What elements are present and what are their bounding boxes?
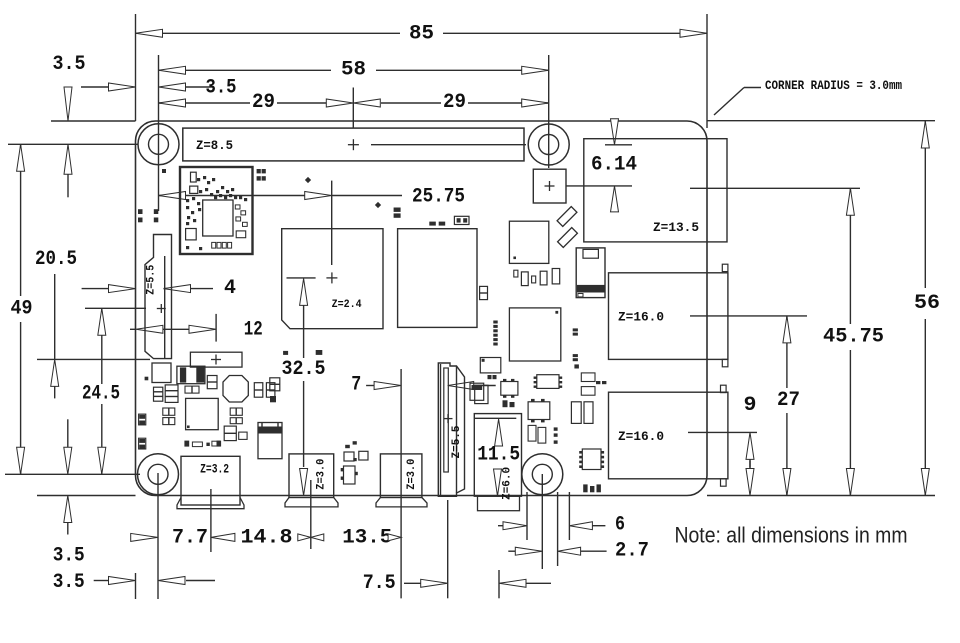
- component square center mark: [545, 181, 555, 191]
- microUSB flange: [177, 498, 244, 509]
- pad below gpio: [162, 169, 166, 173]
- dimension 3.5 top-left text: [53, 53, 86, 76]
- CSI center mark: [444, 414, 453, 423]
- square part below DSI: [152, 363, 171, 383]
- dimension 58 extension line right (hole column): [548, 55, 550, 168]
- dimension 7.7/14.8 left arrow at microUSB: [211, 533, 235, 541]
- svg-text:29: 29: [443, 91, 466, 114]
- USB connector 2 (Z=16.0): [609, 392, 728, 479]
- PMIC chip U6: [186, 398, 219, 429]
- svg-text:6.14: 6.14: [591, 154, 637, 177]
- open square a: [344, 452, 354, 461]
- chips right of audio: [571, 402, 593, 424]
- svg-text:3.5: 3.5: [53, 545, 85, 568]
- svg-text:Note: all dimensions in mm: Note: all dimensions in mm: [675, 523, 908, 548]
- bottom edge extension line to right: [707, 495, 935, 497]
- USB2 label Z=16.0: [618, 430, 664, 444]
- edge part 2: [139, 438, 146, 449]
- dimension 20.5 text: [35, 248, 77, 271]
- dimension 58 extension line left (hole column): [158, 55, 160, 211]
- dimension 12 line: [130, 328, 190, 330]
- tiny bits row above SoC: [283, 350, 322, 355]
- dimension 29 left arrow: [159, 99, 186, 107]
- svg-text:29: 29: [252, 91, 275, 114]
- dimension 6.14 text: [591, 154, 637, 177]
- dimension 49 down arrow: [17, 447, 25, 474]
- dimension 25.75 right arrow: [305, 192, 332, 200]
- USB1 label Z=16.0: [618, 310, 664, 324]
- svg-text:14.8: 14.8: [241, 526, 293, 549]
- dimension 12 right arrow: [189, 325, 216, 333]
- dimension 11.5 top tick (audio center row): [475, 417, 516, 419]
- dimension 6.14 bottom arrow: [611, 186, 619, 212]
- dimension 49 up arrow: [17, 144, 25, 171]
- audio label Z=6.0 rotated: [502, 467, 514, 500]
- USB connector 1 (Z=16.0): [609, 273, 728, 360]
- electrolytic cap C9: [258, 423, 282, 459]
- dimension 3.5 bottom-left vertical up arrow: [64, 496, 72, 535]
- ext line 2.7-right: [557, 492, 559, 566]
- dimension 13.5 text: [342, 526, 392, 549]
- dots col near audio: [554, 427, 558, 443]
- dimension 29 mid tick line: [352, 88, 354, 129]
- svg-text:24.5: 24.5: [82, 382, 120, 405]
- LAN chip U5: [509, 308, 560, 361]
- dimension 25.75 line: [159, 195, 403, 197]
- dimension 7.7 left arrow: [131, 533, 158, 541]
- dimension 3.5 bottom horizontal left arrow: [158, 577, 185, 585]
- vert rect part: [224, 426, 236, 441]
- svg-text:3.5: 3.5: [53, 53, 86, 76]
- mid chip U4: [509, 221, 548, 263]
- dimension 4 line: [82, 288, 213, 290]
- dimension 4 left arrow at DSI: [164, 285, 191, 293]
- pad dot 2: [375, 202, 381, 208]
- component square center row line: [566, 185, 605, 187]
- audio jack lip: [478, 496, 520, 511]
- svg-text:25.75: 25.75: [412, 186, 465, 209]
- tiny row above microUSB: [184, 441, 220, 447]
- dimension 3.5 horizontal left arrow at hole col: [159, 83, 186, 91]
- dimension 24.5 up arrow: [98, 308, 106, 335]
- dimension 9 text: [744, 394, 757, 417]
- SOT23 Q1: [501, 379, 518, 398]
- GPIO header label Z=8.5: [196, 139, 233, 153]
- corner radius note text: [765, 78, 902, 93]
- svg-text:Z=5.5: Z=5.5: [146, 264, 158, 294]
- svg-text:3.5: 3.5: [53, 571, 85, 594]
- CSI slot: [444, 368, 449, 472]
- dimension 56 text: [914, 292, 940, 315]
- ethernet label Z=13.5: [653, 221, 699, 235]
- pads pair right of CSI: [488, 375, 497, 379]
- CSI inner line: [456, 366, 458, 493]
- bottom-right hole column line: [541, 474, 543, 569]
- component right of RAM: [480, 286, 488, 299]
- dimension 29 line left half: [159, 102, 327, 104]
- tiny parts row below: [503, 400, 515, 407]
- USB2 corner tabs: [721, 385, 727, 486]
- dimension 14.8/13.5 butterfly at HDMI1: [298, 534, 324, 541]
- edge part 1: [139, 414, 146, 425]
- small IC with pins: [534, 375, 563, 389]
- svg-text:Z=6.0: Z=6.0: [502, 467, 514, 500]
- dimension 27 line: [786, 316, 788, 496]
- dimension 85 extension line left (board left edge): [135, 14, 137, 121]
- dimension 3.5 top-left down arrow: [64, 87, 72, 121]
- dimension 7.5 line left: [404, 582, 421, 584]
- caps right of PMIC: [230, 408, 242, 424]
- dimension 25.75 left arrow: [159, 192, 186, 200]
- dimension 85 line: [136, 32, 708, 34]
- microUSB label Z=3.2: [200, 463, 229, 477]
- RAM U3: [398, 229, 477, 328]
- svg-text:Z=3.0: Z=3.0: [406, 459, 418, 490]
- dimension 45.75 text: [823, 326, 884, 349]
- dark dot: [270, 396, 276, 402]
- dimension 6.14 top tick: [605, 144, 632, 146]
- pad dot 1: [305, 177, 311, 183]
- flat component center mark: [211, 355, 221, 365]
- svg-text:49: 49: [11, 298, 33, 321]
- svg-text:56: 56: [914, 292, 940, 315]
- HDMI2 center column line low: [400, 452, 402, 598]
- HDMI connector 2 (Z=3.0): [380, 454, 422, 498]
- parts right of CSI top: [475, 385, 488, 403]
- dimension 9 up arrow: [746, 432, 754, 467]
- dimension 3.5 horizontal text: [206, 77, 237, 100]
- dimension 6 right arrow: [569, 522, 605, 530]
- dimension 27 down arrow: [783, 469, 791, 496]
- cap C2: [154, 387, 163, 401]
- bottom hole row extension line to left: [5, 473, 140, 475]
- dimension 56 line: [924, 121, 926, 496]
- dimension 32.5 up arrow: [300, 278, 308, 305]
- dimension 24.5 line: [101, 308, 103, 474]
- dimension 32.5 down arrow: [300, 469, 308, 496]
- svg-text:4: 4: [224, 277, 236, 300]
- small rect r1: [185, 386, 199, 393]
- pads near left edge: [138, 209, 158, 222]
- cap col 1: [254, 383, 262, 398]
- caps right pair: [581, 373, 595, 395]
- dimension 45.75 down arrow: [846, 469, 854, 496]
- two-pad chip above RAM: [454, 216, 469, 224]
- top edge extension line to right: [707, 120, 935, 122]
- svg-text:32.5: 32.5: [282, 358, 326, 381]
- ethernet center row extension line: [690, 187, 860, 189]
- wifi module U1: [180, 167, 253, 254]
- svg-text:2.7: 2.7: [615, 540, 649, 563]
- pads pair above RAM: [429, 222, 445, 226]
- SOT23 Q2: [341, 466, 358, 484]
- wifi small rect 1: [191, 172, 197, 182]
- svg-text:85: 85: [409, 23, 434, 46]
- dimension 11.5 text: [477, 443, 520, 466]
- dimension 3.5 top-left up arrow: [64, 144, 72, 197]
- HDMI2 label Z=3.0 rotated: [406, 459, 418, 490]
- PCB board outline (85 x 56 mm, corner radius 3mm): [136, 121, 708, 496]
- dimension 49 text: [11, 298, 33, 321]
- microUSB center column line: [210, 489, 212, 552]
- cap C3: [165, 385, 178, 403]
- dimension 58 text: [341, 58, 366, 81]
- ethernet jack (Z=13.5): [584, 139, 727, 242]
- svg-text:Z=5.5: Z=5.5: [451, 425, 463, 458]
- svg-text:7.5: 7.5: [363, 572, 396, 595]
- CSI left inner line: [440, 364, 442, 496]
- tiny row under IC: [583, 484, 601, 492]
- dimension 3.5 bottom-left vertical down arrow: [64, 419, 72, 474]
- flat component with center mark: [190, 352, 242, 367]
- svg-text:Z=3.0: Z=3.0: [316, 459, 328, 490]
- dimension 12 tick: [215, 314, 217, 342]
- dimension 85 text: [409, 23, 434, 46]
- mounting hole bottom-left: [138, 454, 179, 495]
- svg-text:CORNER RADIUS = 3.0mm: CORNER RADIUS = 3.0mm: [765, 78, 902, 93]
- dimension 29 text left: [252, 91, 275, 114]
- HDMI1 flange: [285, 498, 338, 507]
- dimension 9 down arrow: [746, 461, 754, 496]
- dark rect left: [470, 383, 484, 400]
- dimension 29 line right half: [381, 102, 549, 104]
- dimension 25.75 tick (SoC column): [331, 181, 333, 265]
- SOT23 Q3: [528, 399, 550, 423]
- dimension 4 text: [224, 277, 236, 300]
- hole column extension line down: [157, 473, 159, 599]
- dimension 7 right arrow: [448, 382, 496, 390]
- dimension 29 mid butterfly arrows: [326, 99, 380, 107]
- dimension 58 line: [159, 69, 549, 71]
- DSI slot line: [164, 256, 166, 358]
- dimension 6 left arrow: [498, 522, 527, 530]
- SD connector: [576, 248, 605, 298]
- dimension 20.5 line: [54, 274, 56, 359]
- diagonal component D1: [557, 207, 577, 227]
- wifi bottom pads row: [212, 242, 232, 248]
- svg-text:Z=2.4: Z=2.4: [332, 299, 362, 311]
- audio jack (Z=6.0): [474, 414, 521, 497]
- dimension 49 line: [20, 144, 22, 474]
- pad dot small: [145, 377, 149, 381]
- dimension 13.5 right arrow at HDMI2: [388, 534, 401, 541]
- dimension 45.75 up arrow: [846, 188, 854, 215]
- dimension 3.5 bottom-left horizontal line: [94, 580, 215, 582]
- HDMI1 label Z=3.0 rotated: [316, 459, 328, 490]
- dimension 14.8 text: [241, 526, 293, 549]
- note text: [675, 523, 908, 548]
- HDMI connector 1 (Z=3.0): [289, 454, 334, 498]
- dimension 6 text: [615, 513, 625, 536]
- dimension 2.7 left arrow: [508, 547, 542, 555]
- dimension 12 text: [244, 319, 263, 342]
- corner radius leader: [714, 88, 761, 116]
- CSI camera connector (Z=5.5): [438, 363, 464, 496]
- IC with pins U7: [579, 449, 604, 470]
- LAN left pads: [493, 321, 497, 346]
- dimension 3.5 horizontal (edge to hole) line: [81, 86, 213, 88]
- DSI label Z=5.5 rotated: [146, 264, 158, 294]
- GPIO header center mark: [348, 139, 359, 150]
- dimension 20.5 up arrow: [51, 359, 59, 398]
- dimension 7.5 left arrow at CSI col: [421, 579, 448, 587]
- DSI center row extension line: [85, 307, 146, 309]
- dimension 4 right arrow into edge: [109, 285, 136, 293]
- CSI label Z=5.5 rotated: [451, 425, 463, 458]
- USB1 corner tabs: [722, 264, 728, 367]
- svg-text:27: 27: [777, 389, 800, 412]
- DSI display connector (Z=5.5): [145, 235, 172, 359]
- dimension 29 right arrow: [522, 99, 549, 107]
- SoC label Z=2.4: [332, 299, 362, 311]
- DSI bottom row extension line: [37, 358, 150, 360]
- dimension 3.5 bottom horizontal right arrow: [109, 577, 136, 585]
- pads pair above usb2 area: [596, 381, 606, 384]
- microUSB power (Z=3.2): [181, 456, 240, 505]
- svg-text:7: 7: [351, 374, 361, 397]
- component square with center mark: [533, 169, 566, 203]
- ext line 6-left: [526, 492, 528, 540]
- dimension 24.5 text: [82, 382, 120, 405]
- dimension 85 extension line right (board right edge): [706, 14, 708, 128]
- mounting hole bottom-right: [522, 454, 563, 495]
- vert part above octagon: [207, 376, 217, 389]
- HDMI2 center column line: [400, 369, 402, 452]
- dimension 7.5 text: [363, 572, 396, 595]
- GPIO header J8 (Z=8.5): [183, 128, 524, 161]
- mounting hole top-left: [138, 124, 179, 165]
- dimension 3.5 bottom-left horizontal text: [53, 571, 85, 594]
- svg-text:Z=16.0: Z=16.0: [618, 310, 664, 324]
- wifi shield inner chip: [203, 200, 233, 236]
- inductor L1 octagon: [223, 376, 248, 403]
- svg-text:45.75: 45.75: [823, 326, 884, 349]
- dimension 25.75 text: [412, 186, 465, 209]
- dimension 2.7 right arrow: [558, 547, 607, 555]
- svg-text:58: 58: [341, 58, 366, 81]
- small square part: [239, 432, 247, 439]
- dimension 11.5 down arrow: [494, 469, 502, 496]
- svg-text:12: 12: [244, 319, 263, 342]
- dimension 7.7 text: [172, 526, 208, 549]
- svg-text:6: 6: [615, 513, 625, 536]
- SoC U2 (Z=2.4): [282, 229, 383, 329]
- HDMI1 center column line: [310, 480, 312, 549]
- svg-text:3.5: 3.5: [206, 77, 237, 100]
- USB1 center row extension line: [690, 315, 807, 317]
- dimension 3.5 bottom-left vertical text: [53, 545, 85, 568]
- hole center row extension line to left: [8, 143, 138, 145]
- dimension 6.14 bottom tick: [605, 185, 632, 187]
- diagonal component D2: [558, 228, 578, 248]
- dimension 56 down arrow: [921, 469, 929, 496]
- wifi right pads: [235, 205, 247, 238]
- dimension 7.5 right arrow at audio col: [499, 579, 551, 587]
- IC bottom-left of LAN: [480, 358, 501, 373]
- dimension 27 text: [777, 389, 800, 412]
- dimension 45.75 line: [849, 188, 851, 495]
- dots above squares: [345, 441, 357, 448]
- board left edge extension line down: [135, 573, 137, 599]
- SoC center mark: [326, 272, 337, 283]
- dimension 32.5 top tick (SoC center row): [287, 277, 316, 279]
- tiny pads pair: [353, 458, 356, 461]
- wifi small square 2: [190, 186, 198, 193]
- wifi open square 3: [186, 229, 197, 240]
- dimension 7 text: [351, 374, 361, 397]
- ext line 6-right: [568, 492, 570, 540]
- dimension 56 up arrow: [921, 121, 929, 148]
- dimension 29 text right: [443, 91, 466, 114]
- mid small parts row: [514, 269, 560, 286]
- dimension 3.5 horizontal right arrow into edge: [109, 83, 136, 91]
- mounting hole top-right: [528, 124, 569, 165]
- dimension 24.5 down arrow: [98, 447, 106, 474]
- cap pair mid: [163, 408, 175, 425]
- caps pair near audio: [528, 425, 546, 443]
- dimension 7 left arrow: [366, 382, 401, 390]
- dimension 32.5 line: [303, 305, 305, 467]
- dimension 27 up arrow: [783, 316, 791, 343]
- open square b: [359, 451, 368, 460]
- USB2 center row extension line: [688, 431, 757, 433]
- wifi scatter pads: [186, 176, 247, 250]
- svg-text:9: 9: [744, 394, 757, 417]
- dimension 11.5 up arrow: [495, 419, 503, 446]
- pads right of wifi: [257, 169, 266, 181]
- svg-text:Z=16.0: Z=16.0: [618, 430, 664, 444]
- svg-text:Z=3.2: Z=3.2: [200, 463, 229, 477]
- DSI center mark: [157, 304, 166, 313]
- audio center column line low: [498, 570, 500, 598]
- tantalum cap C1: [177, 366, 205, 384]
- dimension 58 left arrow: [159, 66, 186, 74]
- GPIO header center line to hole: [371, 144, 526, 146]
- cap col 2: [266, 383, 275, 398]
- svg-text:7.7: 7.7: [172, 526, 208, 549]
- dimension 85 left arrow: [136, 29, 163, 37]
- dimension 2.7 text: [615, 540, 649, 563]
- pads pair mid-top: [394, 208, 401, 218]
- svg-text:13.5: 13.5: [342, 526, 392, 549]
- HDMI2 flange: [376, 498, 427, 507]
- CSI center column line low: [447, 500, 449, 598]
- svg-text:11.5: 11.5: [477, 443, 520, 466]
- bottom edge extension line to left: [37, 495, 136, 497]
- dimension 12 left arrow: [136, 325, 163, 333]
- LAN right pads: [573, 328, 579, 368]
- svg-text:Z=13.5: Z=13.5: [653, 221, 699, 235]
- dimension 32.5 text: [282, 358, 326, 381]
- dimension 6.14 top arrow: [611, 119, 619, 145]
- svg-text:Z=8.5: Z=8.5: [196, 139, 233, 153]
- dimension 58 right arrow: [522, 66, 549, 74]
- dimension 85 right arrow: [680, 29, 707, 37]
- vert 2-pad right of microUSB: [270, 378, 280, 391]
- top edge extension line to left: [51, 120, 136, 122]
- svg-text:20.5: 20.5: [35, 248, 77, 271]
